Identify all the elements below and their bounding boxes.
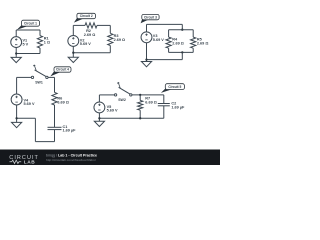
svg-text:Circuit 2: Circuit 2 xyxy=(80,14,93,18)
svg-text:2.69 Ω: 2.69 Ω xyxy=(114,38,126,42)
svg-text:6.69 Ω: 6.69 Ω xyxy=(145,101,157,105)
svg-text:Circuit 1: Circuit 1 xyxy=(24,21,37,25)
svg-text:6.69 Ω: 6.69 Ω xyxy=(57,100,69,104)
svg-text:http://circuitlab.com/c6sw3ucc: http://circuitlab.com/c6sw3ucc63dm/ xyxy=(46,158,96,162)
svg-text:2.69 Ω: 2.69 Ω xyxy=(197,42,209,46)
svg-text:Circuit 3: Circuit 3 xyxy=(144,15,157,19)
svg-text:5.69 V: 5.69 V xyxy=(107,109,118,113)
svg-text:5.69 V: 5.69 V xyxy=(153,38,164,42)
svg-text:2.69 Ω: 2.69 Ω xyxy=(172,42,184,46)
svg-text:SW1: SW1 xyxy=(35,80,43,84)
svg-text:5.69 V: 5.69 V xyxy=(24,102,35,106)
svg-text:LAB: LAB xyxy=(24,160,36,165)
svg-text:5.69 V: 5.69 V xyxy=(80,42,91,46)
svg-text:SW2: SW2 xyxy=(118,98,126,102)
svg-text:2.69 Ω: 2.69 Ω xyxy=(84,33,96,37)
svg-text:Circuit 5: Circuit 5 xyxy=(168,85,181,89)
svg-text:Circuit 4: Circuit 4 xyxy=(56,68,69,72)
svg-text:1.69 µF: 1.69 µF xyxy=(63,129,77,133)
svg-text:1 Ω: 1 Ω xyxy=(44,40,50,44)
svg-text:5 V: 5 V xyxy=(23,42,29,46)
svg-text:1.69 µF: 1.69 µF xyxy=(171,105,185,109)
